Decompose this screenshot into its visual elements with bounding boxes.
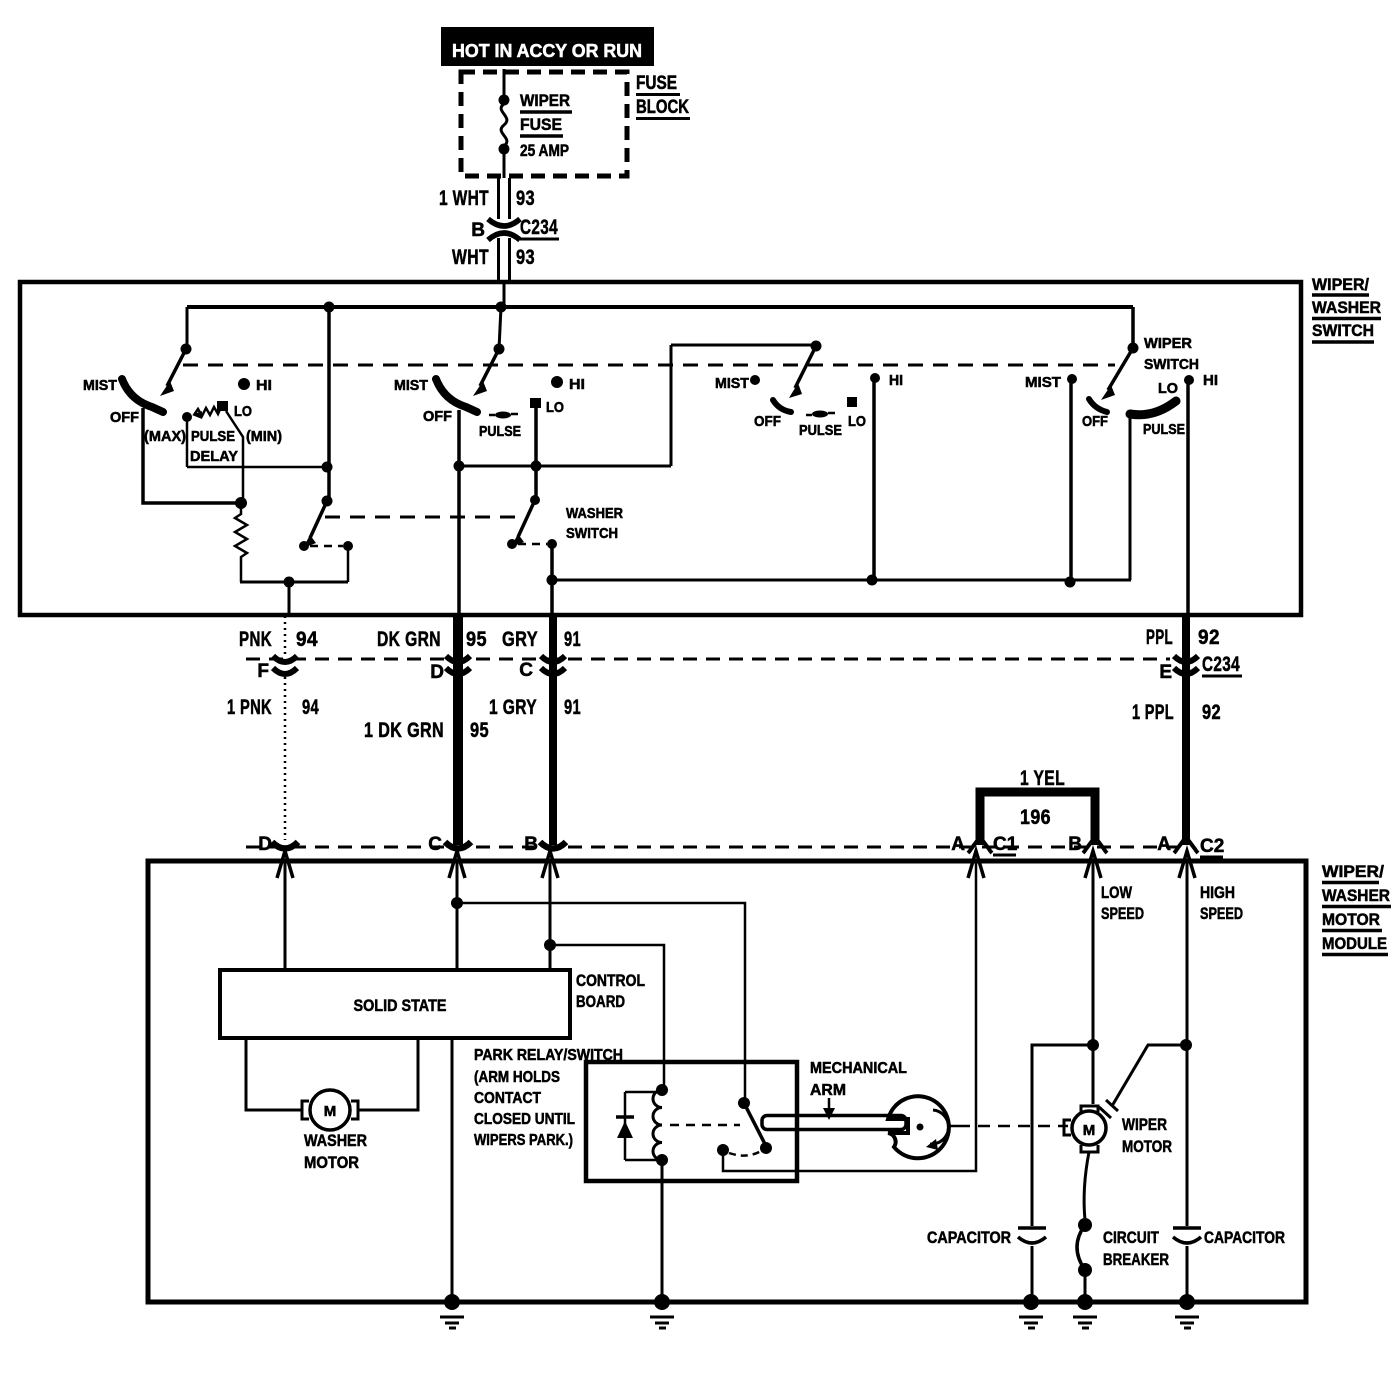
- svg-text:M: M: [1083, 1122, 1096, 1139]
- svg-text:WASHER: WASHER: [304, 1131, 367, 1150]
- svg-text:ARM: ARM: [810, 1082, 846, 1099]
- svg-text:1 PNK: 1 PNK: [227, 696, 272, 719]
- svg-text:MODULE: MODULE: [1322, 934, 1387, 953]
- svg-text:1 DK GRN: 1 DK GRN: [364, 719, 444, 742]
- svg-text:C: C: [428, 834, 442, 855]
- svg-text:BOARD: BOARD: [576, 992, 625, 1011]
- svg-text:MIST: MIST: [394, 377, 428, 394]
- svg-text:SPEED: SPEED: [1200, 904, 1243, 923]
- svg-text:LO: LO: [1158, 380, 1178, 397]
- svg-text:MIST: MIST: [1025, 374, 1061, 391]
- svg-text:PNK: PNK: [239, 628, 272, 651]
- svg-text:F: F: [257, 661, 269, 682]
- svg-text:LO: LO: [546, 399, 564, 416]
- svg-text:MOTOR: MOTOR: [1322, 910, 1380, 929]
- svg-text:HI: HI: [256, 377, 272, 394]
- svg-text:1 YEL: 1 YEL: [1020, 767, 1065, 790]
- svg-text:1 GRY: 1 GRY: [489, 696, 537, 719]
- svg-text:D: D: [258, 834, 272, 855]
- svg-text:95: 95: [470, 719, 489, 742]
- svg-text:HI: HI: [889, 372, 903, 389]
- svg-text:E: E: [1159, 662, 1172, 683]
- svg-text:OFF: OFF: [754, 413, 781, 430]
- svg-text:B: B: [471, 220, 485, 241]
- svg-text:PULSE: PULSE: [799, 422, 842, 439]
- svg-text:OFF: OFF: [423, 408, 452, 425]
- svg-text:BREAKER: BREAKER: [1103, 1250, 1169, 1269]
- svg-text:1 PPL: 1 PPL: [1132, 701, 1174, 724]
- svg-text:MOTOR: MOTOR: [304, 1153, 359, 1172]
- svg-text:SOLID STATE: SOLID STATE: [354, 996, 447, 1015]
- svg-text:CIRCUIT: CIRCUIT: [1103, 1228, 1159, 1247]
- svg-text:MIST: MIST: [715, 375, 749, 392]
- svg-text:HI: HI: [1203, 372, 1218, 389]
- svg-text:C: C: [519, 660, 533, 681]
- svg-text:(ARM HOLDS: (ARM HOLDS: [474, 1069, 560, 1086]
- svg-text:D: D: [430, 662, 444, 683]
- svg-text:C234: C234: [1202, 653, 1240, 676]
- svg-text:WIPER/: WIPER/: [1322, 862, 1384, 881]
- svg-text:C234: C234: [520, 216, 558, 239]
- svg-text:PULSE: PULSE: [191, 428, 235, 445]
- svg-text:OFF: OFF: [1082, 413, 1108, 430]
- svg-text:FUSE: FUSE: [520, 115, 562, 134]
- svg-text:A: A: [951, 834, 965, 855]
- svg-text:WHT: WHT: [452, 246, 489, 269]
- svg-text:CONTROL: CONTROL: [576, 971, 645, 990]
- svg-text:MOTOR: MOTOR: [1122, 1137, 1172, 1156]
- svg-text:OFF: OFF: [110, 409, 139, 426]
- svg-text:WASHER: WASHER: [566, 505, 623, 522]
- svg-text:B: B: [1068, 834, 1082, 855]
- svg-text:SWITCH: SWITCH: [566, 525, 618, 542]
- svg-text:LOW: LOW: [1101, 883, 1133, 902]
- svg-text:WIPER/: WIPER/: [1312, 275, 1369, 294]
- svg-text:CAPACITOR: CAPACITOR: [1204, 1228, 1285, 1247]
- svg-text:92: 92: [1202, 701, 1221, 724]
- svg-text:WASHER: WASHER: [1312, 298, 1381, 317]
- svg-text:PPL: PPL: [1146, 626, 1173, 649]
- svg-text:HIGH: HIGH: [1200, 883, 1235, 902]
- svg-text:HOT IN ACCY OR RUN: HOT IN ACCY OR RUN: [452, 41, 642, 61]
- svg-text:MIST: MIST: [83, 377, 117, 394]
- svg-text:92: 92: [1198, 626, 1220, 649]
- svg-text:CAPACITOR: CAPACITOR: [927, 1228, 1011, 1247]
- svg-text:FUSE: FUSE: [636, 73, 677, 94]
- svg-text:PULSE: PULSE: [479, 423, 521, 440]
- svg-text:C2: C2: [1200, 836, 1224, 857]
- svg-text:SWITCH: SWITCH: [1144, 356, 1199, 373]
- svg-text:94: 94: [302, 696, 319, 719]
- svg-text:DELAY: DELAY: [190, 448, 238, 465]
- svg-text:25 AMP: 25 AMP: [520, 141, 569, 160]
- svg-text:BLOCK: BLOCK: [636, 97, 689, 118]
- svg-text:DK GRN: DK GRN: [377, 628, 441, 651]
- svg-text:WIPERS PARK.): WIPERS PARK.): [474, 1132, 573, 1149]
- svg-text:A: A: [1157, 834, 1171, 855]
- svg-text:93: 93: [516, 246, 535, 269]
- svg-text:(MAX): (MAX): [144, 428, 186, 445]
- svg-text:C1: C1: [993, 834, 1018, 855]
- svg-text:B: B: [524, 834, 538, 855]
- svg-text:HI: HI: [569, 376, 585, 393]
- svg-text:1 WHT: 1 WHT: [439, 187, 489, 210]
- svg-text:WASHER: WASHER: [1322, 886, 1390, 905]
- svg-text:MECHANICAL: MECHANICAL: [810, 1060, 907, 1077]
- svg-text:PULSE: PULSE: [1143, 421, 1185, 438]
- svg-text:196: 196: [1020, 806, 1051, 829]
- svg-text:CLOSED UNTIL: CLOSED UNTIL: [474, 1111, 575, 1128]
- svg-text:LO: LO: [848, 413, 866, 430]
- svg-text:WIPER: WIPER: [1122, 1115, 1167, 1134]
- svg-text:CONTACT: CONTACT: [474, 1090, 541, 1107]
- svg-text:LO: LO: [234, 403, 252, 420]
- svg-text:GRY: GRY: [502, 628, 538, 651]
- svg-text:WIPER: WIPER: [1144, 335, 1192, 352]
- svg-text:(MIN): (MIN): [246, 428, 282, 445]
- svg-text:94: 94: [296, 628, 318, 651]
- svg-text:SWITCH: SWITCH: [1312, 321, 1374, 340]
- svg-text:93: 93: [516, 187, 535, 210]
- svg-text:91: 91: [564, 628, 581, 651]
- svg-text:M: M: [324, 1103, 337, 1120]
- svg-text:95: 95: [466, 628, 487, 651]
- svg-text:WIPER: WIPER: [520, 91, 570, 110]
- svg-text:91: 91: [564, 696, 581, 719]
- svg-text:SPEED: SPEED: [1101, 904, 1144, 923]
